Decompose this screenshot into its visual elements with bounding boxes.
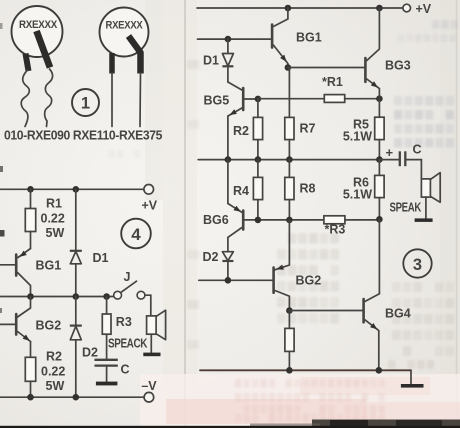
wire mid rail to R4: [257, 160, 259, 178]
resistor below BG2 (unlabeled): [285, 328, 294, 351]
thermistor RT1 left kinked wire: [21, 70, 29, 127]
wire R3 to C: [106, 334, 108, 359]
junction bottom rail / R2: [27, 394, 34, 401]
svg-text:–V: –V: [141, 379, 157, 393]
wire BG5 emitter to mid rail: [227, 116, 229, 160]
switch J: [114, 291, 122, 299]
wire mid rail to C: [379, 159, 398, 161]
svg-text:RXEXXX: RXEXXX: [19, 19, 58, 31]
wire speaker to ground (fig3): [425, 197, 427, 219]
terminal +V (fig3): [403, 4, 411, 12]
ground below speaker (fig4): [143, 353, 160, 357]
wire R2 to bottom rail: [30, 381, 32, 397]
capacitor C (fig3): [399, 151, 401, 166]
wire R1 to BG1 emitter: [30, 232, 32, 249]
figure number 4 circled: [121, 219, 151, 249]
junction R3 rail / R4: [255, 217, 262, 224]
wire bottom rail (fig3): [200, 369, 411, 371]
wire D2 to BG2 base line: [227, 261, 229, 280]
thermistor RT1 left thick lead: [26, 54, 29, 72]
wire BG6 to D2 (fig3): [227, 237, 229, 251]
resistor R1 (fig3): [324, 95, 344, 103]
terminal -V (fig4): [144, 392, 154, 402]
junction top rail / R1: [27, 186, 34, 193]
svg-text:0.22: 0.22: [41, 212, 65, 226]
thermistor RT2 right thick lead: [129, 36, 141, 74]
svg-text:R8: R8: [300, 182, 316, 196]
wire D1 branch (fig3): [227, 39, 229, 53]
svg-text:BG3: BG3: [385, 59, 411, 73]
wire mid rail (fig4): [0, 296, 114, 298]
thermistor RT1 right thick lead: [37, 31, 51, 68]
svg-text:BG6: BG6: [203, 213, 229, 227]
wire R4 bottom: [257, 200, 259, 220]
svg-text:R2: R2: [46, 350, 62, 364]
diode D2 (fig3): [222, 252, 233, 261]
junction top rail / BG1 collector: [285, 5, 292, 12]
transistor BG6: [242, 211, 245, 230]
wire BG4 collector column: [378, 219, 380, 293]
svg-text:5W: 5W: [46, 379, 65, 393]
transistor BG1 (fig3): [271, 25, 274, 48]
thermistor RT2 left thick lead: [109, 53, 115, 74]
svg-text:+V: +V: [416, 2, 432, 16]
svg-text:4: 4: [131, 225, 141, 244]
svg-text:5.1W: 5.1W: [343, 188, 372, 202]
svg-text:J: J: [124, 270, 131, 284]
thermistor RT2 right wire lead: [139, 73, 142, 127]
junction bottom rail / D2: [73, 394, 80, 401]
svg-text:5.1W: 5.1W: [343, 130, 372, 144]
wire R2 top (fig3): [257, 99, 259, 117]
junction base line / D1 (fig3): [225, 36, 232, 43]
thermistor RT1 right kinked wire: [45, 69, 53, 127]
figure number 3 circled: [403, 249, 431, 277]
transistor BG4: [362, 299, 365, 322]
svg-text:SPEACK: SPEACK: [108, 337, 147, 351]
wire speaker to ground (fig4): [150, 334, 152, 353]
resistor R1 (fig4): [25, 209, 35, 232]
wire mid rail to R8: [288, 160, 290, 178]
wire mid rail to BG6: [227, 160, 229, 204]
wire D1 to mid rail: [75, 264, 77, 297]
wire node to resistor below: [288, 311, 290, 329]
junction mid rail / R2-R4: [255, 156, 262, 163]
svg-text:BG1: BG1: [296, 31, 322, 45]
svg-text:R7: R7: [300, 122, 316, 136]
svg-text:BG5: BG5: [204, 94, 230, 108]
speaker (fig3): [421, 179, 430, 197]
ground below C (fig4): [96, 382, 118, 386]
resistor R8: [285, 177, 294, 199]
svg-text:+V: +V: [141, 199, 157, 213]
wire mid rail to R3: [106, 297, 108, 315]
junction R3 rail / R6 / BG4 collector: [376, 216, 383, 223]
wire +V rail to R1: [30, 189, 32, 208]
wire R8 bottom: [288, 200, 290, 220]
svg-text:D1: D1: [203, 54, 219, 68]
thermistor RT2 left wire lead: [111, 73, 113, 127]
svg-text:1: 1: [81, 95, 90, 113]
thermistor RT1 body: [12, 6, 63, 57]
svg-text:SPEAK: SPEAK: [390, 201, 422, 215]
svg-text:*R1: *R1: [322, 75, 343, 89]
svg-text:BG1: BG1: [36, 259, 62, 273]
wire C to ground: [106, 366, 108, 382]
wire mid rail to D2 (fig4): [75, 297, 77, 326]
svg-text:D1: D1: [93, 251, 109, 265]
wire BG3 node to R5: [378, 99, 380, 118]
wire BG2 to R2: [30, 342, 32, 358]
junction mid rail / BG1: [27, 293, 34, 300]
svg-text:3: 3: [413, 256, 422, 274]
wire top +V rail (fig3): [197, 7, 403, 9]
capacitor C (fig4): [95, 359, 118, 361]
resistor *R3 (fig3): [324, 216, 345, 224]
svg-text:D2: D2: [82, 346, 98, 360]
transistor BG5: [242, 88, 245, 110]
junction BG2 emitter node: [286, 307, 293, 314]
wire BG1 emitter to R7: [288, 68, 290, 118]
junction BG1 emitter node: [285, 64, 292, 71]
transistor BG1 (fig4): [15, 255, 18, 276]
wire base node to R1: [258, 98, 324, 100]
resistor R6: [375, 175, 384, 197]
svg-text:BG2: BG2: [296, 274, 322, 288]
wire D1 to BG5 collector: [227, 66, 229, 82]
svg-text:D2: D2: [203, 250, 219, 264]
wire D2 to bottom rail: [75, 340, 77, 397]
svg-text:R2: R2: [233, 124, 249, 138]
wire switch to speaker (fig4): [145, 295, 151, 316]
junction mid rail / BG5-BG6 column: [225, 156, 232, 163]
wire BG3 base line: [288, 67, 364, 69]
wire top +V rail (fig4): [0, 188, 144, 190]
svg-text:010-RXE090 RXE110-RXE375: 010-RXE090 RXE110-RXE375: [4, 128, 162, 143]
svg-text:RXEXXX: RXEXXX: [106, 20, 144, 32]
wire C to speaker: [406, 160, 421, 179]
svg-text:*R3: *R3: [325, 223, 346, 237]
diode D1 (fig4): [70, 250, 82, 252]
wire R3 rail right: [345, 219, 380, 221]
junction BG5 base / R2 top: [255, 96, 262, 103]
svg-text:R4: R4: [233, 184, 249, 198]
wire R1 to BG3 emitter node: [345, 98, 380, 100]
resistor R4: [253, 177, 262, 199]
ground at bottom rail end (fig3): [410, 370, 412, 384]
resistor R5: [375, 117, 384, 139]
junction base line / D2 (fig3): [225, 277, 232, 284]
svg-text:C: C: [413, 143, 422, 157]
junction top rail / D1: [73, 186, 80, 193]
svg-text:5W: 5W: [46, 226, 65, 240]
wire BG1 base line (fig3): [198, 38, 272, 40]
wire mid rail to R6: [378, 160, 380, 176]
wire R6 bottom: [378, 198, 380, 220]
wire R2 bottom to mid rail: [257, 140, 259, 160]
junction mid rail / D1: [73, 293, 80, 300]
ground below speaker (fig3): [415, 218, 433, 222]
terminal +V (fig4): [144, 185, 154, 195]
svg-text:R1: R1: [46, 197, 62, 211]
junction bottom rail / BG4 emitter: [376, 367, 383, 374]
diode D2 (fig4): [70, 325, 82, 327]
junction mid rail / R3: [103, 293, 110, 300]
resistor R2 (fig3): [253, 117, 262, 139]
wire resistor to bottom rail: [288, 351, 290, 370]
wire mid rail (fig3): [198, 159, 379, 161]
junction R1 / R5 / BG3 emitter: [376, 95, 383, 102]
svg-text:BG4: BG4: [385, 307, 411, 321]
wire D1 branch upper (fig4): [75, 189, 77, 251]
resistor R2 (fig4): [25, 357, 35, 381]
resistor R7: [285, 117, 294, 139]
junction mid rail / R7-R8: [286, 156, 293, 163]
wire BG2 base line (fig3): [199, 279, 272, 281]
wire BG2 emitter to BG4 base: [289, 310, 362, 312]
svg-text:0.22: 0.22: [41, 365, 65, 379]
resistor R3 (fig4): [102, 314, 111, 334]
wire R7 bottom to mid rail: [288, 140, 290, 160]
transistor BG2 (fig3): [272, 268, 275, 293]
wire bottom -V rail (fig4): [0, 396, 144, 398]
wire R5 bottom to mid rail: [378, 140, 380, 160]
junction R3 rail / R8-BG2: [286, 217, 293, 224]
svg-text:R3: R3: [116, 315, 132, 329]
speaker (fig4): [147, 316, 157, 334]
svg-text:BG2: BG2: [36, 319, 62, 333]
figure number 1 circled: [72, 89, 99, 116]
svg-text:C: C: [121, 363, 130, 377]
transistor BG2 (fig4): [15, 314, 18, 335]
svg-text:+: +: [386, 145, 394, 160]
transistor BG3: [364, 58, 367, 82]
junction bottom rail / resistor: [286, 367, 293, 374]
diode D1 (fig3): [222, 54, 233, 67]
junction mid rail / R5-R6-C: [376, 156, 383, 163]
thermistor RT2 body: [100, 8, 149, 57]
junction top rail / BG3 collector: [376, 5, 383, 12]
wire R3 rail left (fig3): [245, 219, 324, 221]
